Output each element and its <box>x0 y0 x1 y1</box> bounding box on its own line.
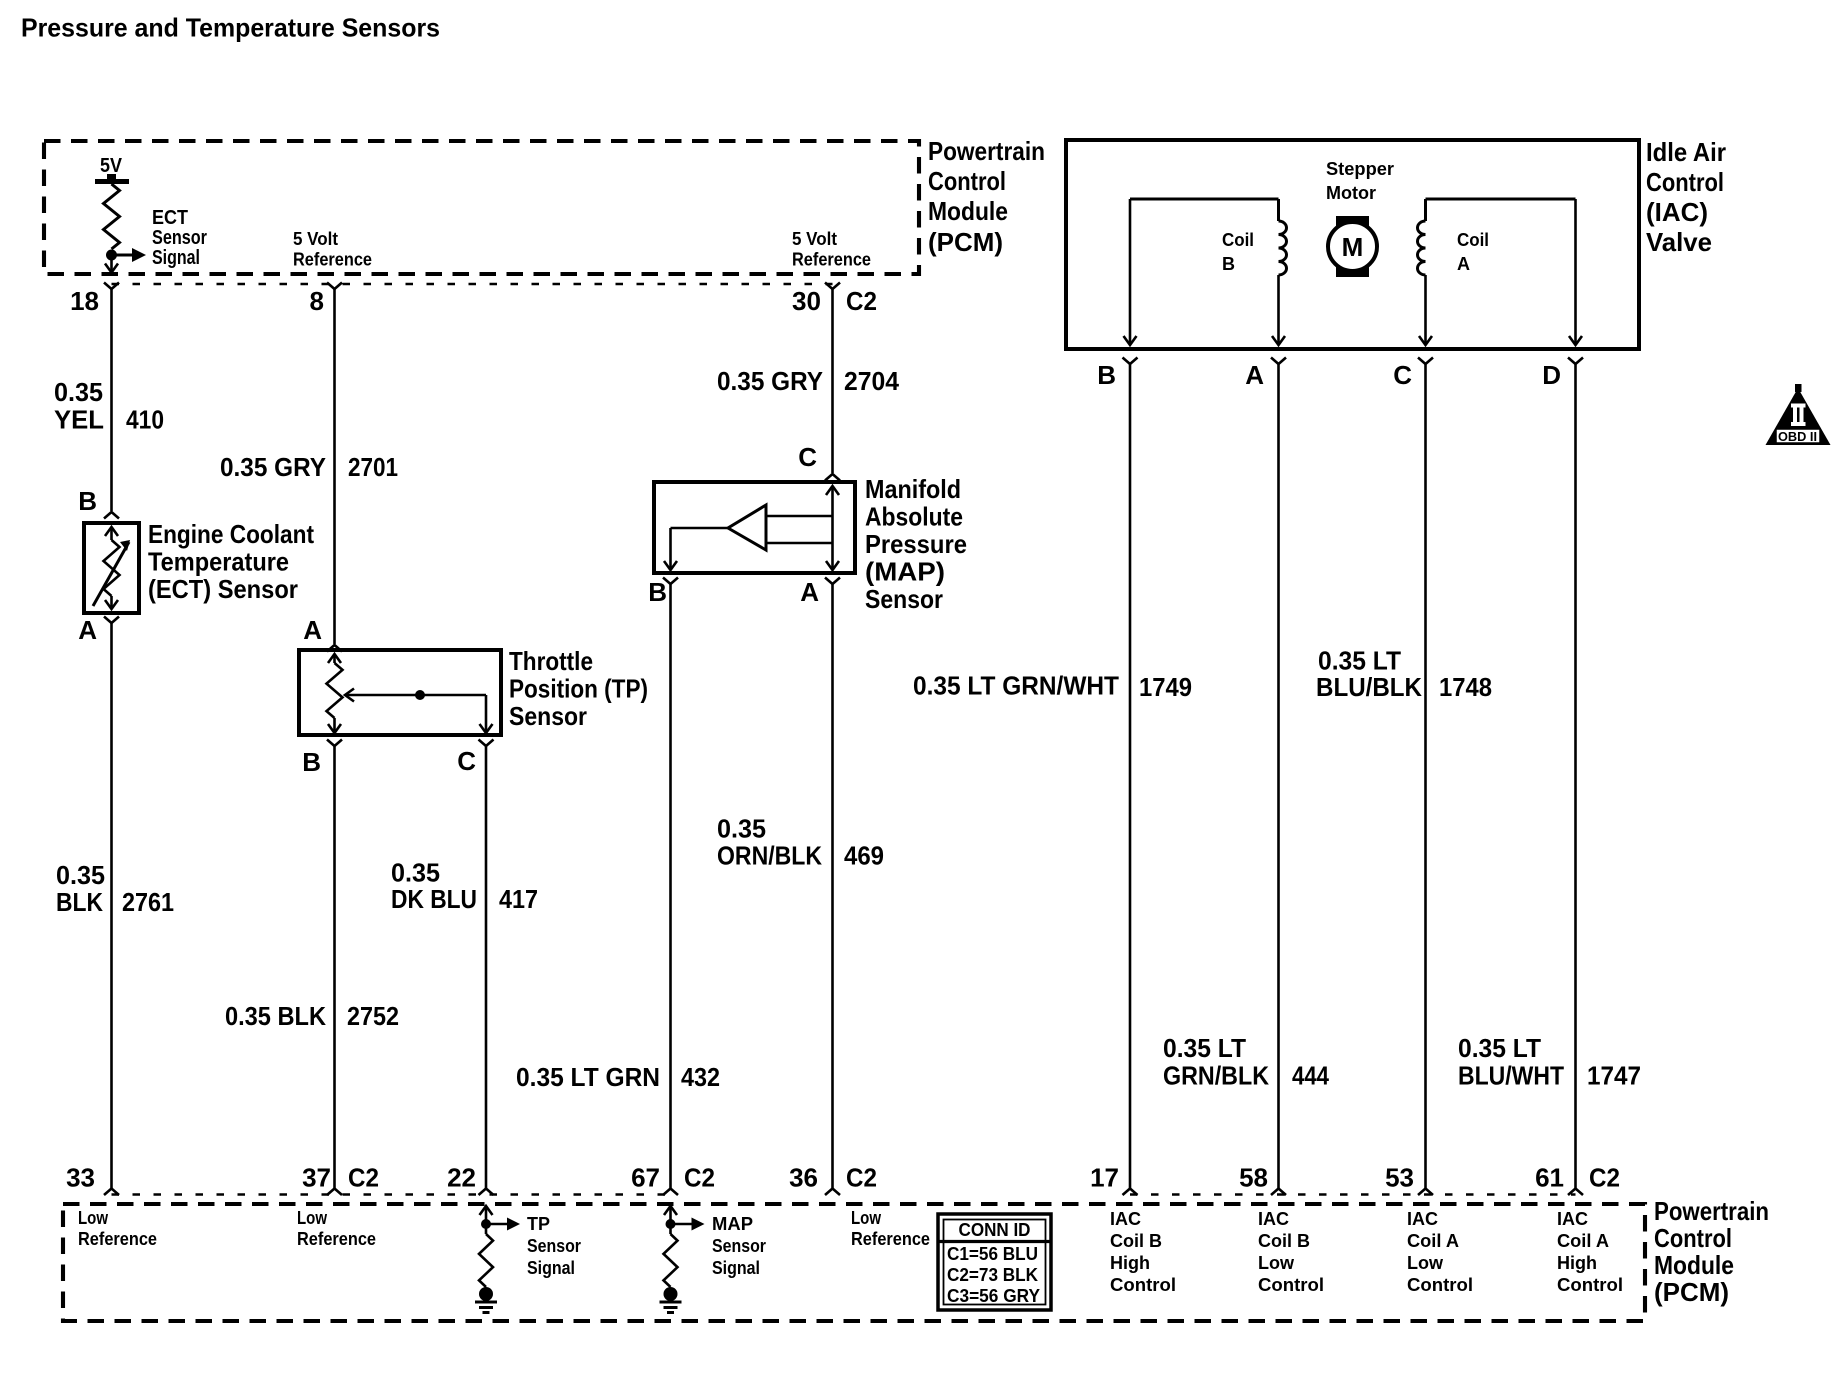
svg-text:1747: 1747 <box>1587 1061 1641 1091</box>
connector chevron MAP pin A <box>825 578 840 585</box>
connector chevron pin 67 <box>663 1189 678 1196</box>
PCM top module box (dashed) <box>44 141 919 274</box>
svg-text:Powertrain: Powertrain <box>928 136 1045 166</box>
CONN ID table box <box>938 1214 1051 1310</box>
svg-text:0.35 BLK: 0.35 BLK <box>225 1001 326 1031</box>
svg-text:C1=56 BLU: C1=56 BLU <box>947 1244 1038 1264</box>
svg-text:30: 30 <box>792 286 821 316</box>
connector chevron pin 37 <box>327 1189 342 1196</box>
PCM bottom module box (dashed) <box>63 1204 1645 1321</box>
svg-text:IAC: IAC <box>1110 1209 1141 1229</box>
wire 2704 GRY pin 30 to MAP C <box>831 289 834 473</box>
5V supply bar <box>95 179 129 184</box>
svg-text:432: 432 <box>681 1062 720 1092</box>
svg-text:469: 469 <box>844 841 884 871</box>
svg-text:M: M <box>1342 232 1364 262</box>
svg-text:C2: C2 <box>1589 1163 1620 1193</box>
svg-text:B: B <box>302 747 321 777</box>
MAP sensor box <box>654 482 855 573</box>
svg-text:C2: C2 <box>846 286 877 316</box>
svg-text:(IAC): (IAC) <box>1646 197 1708 227</box>
svg-text:Manifold: Manifold <box>865 474 961 504</box>
svg-text:2704: 2704 <box>844 366 900 396</box>
svg-text:Reference: Reference <box>792 250 871 270</box>
svg-text:0.35 LT GRN/WHT: 0.35 LT GRN/WHT <box>913 671 1119 701</box>
wire 444 LT GRN/BLK IAC A to pin 58 <box>1277 364 1280 1188</box>
svg-text:Sensor: Sensor <box>152 227 207 249</box>
wire 2701 GRY pin 8 to TP A <box>333 289 336 644</box>
svg-text:Reference: Reference <box>293 250 372 270</box>
svg-text:1749: 1749 <box>1139 672 1192 702</box>
svg-text:C2: C2 <box>846 1163 877 1193</box>
svg-text:417: 417 <box>499 884 538 914</box>
svg-text:18: 18 <box>70 286 99 316</box>
wire 410 YEL pin18 to ECT B <box>110 289 113 511</box>
connector chevron IAC A <box>1271 358 1286 365</box>
svg-text:Control: Control <box>928 166 1006 196</box>
connector C1 face line (top) <box>112 283 833 286</box>
svg-text:(MAP): (MAP) <box>865 557 945 587</box>
TP sensor signal input (inside PCM) <box>485 1206 488 1234</box>
svg-text:C2: C2 <box>684 1163 715 1193</box>
svg-text:Sensor: Sensor <box>509 701 587 731</box>
svg-text:Coil: Coil <box>1222 230 1254 250</box>
svg-text:Reference: Reference <box>297 1229 376 1249</box>
connector chevron TP pin B <box>327 740 342 747</box>
svg-text:C: C <box>457 746 476 776</box>
coil A winding loop wire <box>1426 198 1576 201</box>
op-amp output wire to MAP B <box>671 527 729 530</box>
connector chevron pin 8 <box>327 283 342 290</box>
svg-text:YEL: YEL <box>54 405 104 435</box>
connector chevron MAP pin C <box>825 474 840 481</box>
svg-text:Module: Module <box>1654 1250 1734 1280</box>
svg-text:Control: Control <box>1557 1275 1623 1295</box>
svg-text:Idle Air: Idle Air <box>1646 137 1726 167</box>
svg-text:Low: Low <box>78 1208 109 1228</box>
svg-text:Stepper: Stepper <box>1326 159 1394 179</box>
svg-text:0.35 LT: 0.35 LT <box>1458 1033 1541 1063</box>
svg-text:Coil: Coil <box>1457 230 1489 250</box>
svg-text:0.35: 0.35 <box>54 377 103 407</box>
svg-text:Low: Low <box>297 1208 328 1228</box>
svg-text:0.35 GRY: 0.35 GRY <box>220 452 326 482</box>
thermistor ECT internal <box>105 527 118 536</box>
resistor R-pullup ECT (inside PCM) <box>104 184 120 249</box>
svg-text:ECT: ECT <box>152 207 188 229</box>
svg-text:Throttle: Throttle <box>509 646 593 676</box>
MAP sensor signal input (inside PCM) <box>669 1206 672 1234</box>
svg-text:2761: 2761 <box>122 887 174 917</box>
svg-text:61: 61 <box>1535 1163 1564 1193</box>
svg-text:Reference: Reference <box>78 1229 157 1249</box>
svg-text:58: 58 <box>1239 1163 1268 1193</box>
wire 432 LT GRN MAP B to pin 67 <box>669 584 672 1188</box>
svg-text:CONN ID: CONN ID <box>959 1220 1031 1240</box>
op-amp input wires <box>766 515 833 518</box>
connector chevron IAC D <box>1568 358 1583 365</box>
connector chevron pin 61 <box>1568 1189 1583 1196</box>
svg-text:High: High <box>1110 1253 1150 1273</box>
svg-text:C: C <box>1393 360 1412 390</box>
svg-text:(PCM): (PCM) <box>928 227 1003 257</box>
svg-text:67: 67 <box>631 1163 660 1193</box>
svg-text:22: 22 <box>447 1163 476 1193</box>
stepper motor M symbol <box>1336 216 1369 277</box>
svg-text:C2=73 BLK: C2=73 BLK <box>947 1265 1038 1285</box>
svg-text:0.35: 0.35 <box>56 860 105 890</box>
svg-text:Control: Control <box>1646 167 1724 197</box>
svg-text:A: A <box>800 577 819 607</box>
svg-text:8: 8 <box>310 286 324 316</box>
svg-text:Pressure and Temperature Senso: Pressure and Temperature Sensors <box>21 13 440 43</box>
TP wiper arm <box>345 689 354 702</box>
svg-text:A: A <box>1457 254 1470 274</box>
svg-text:OBD II: OBD II <box>1778 430 1817 444</box>
potentiometer TP internal <box>328 654 341 663</box>
svg-text:1748: 1748 <box>1439 672 1492 702</box>
svg-text:Control: Control <box>1407 1275 1473 1295</box>
connector chevron ECT pin B <box>104 512 119 519</box>
svg-text:0.35: 0.35 <box>391 858 440 888</box>
connector C1/C2 face line (bottom left) <box>112 1193 671 1196</box>
svg-text:Signal: Signal <box>152 247 200 269</box>
svg-text:B: B <box>648 577 667 607</box>
svg-text:Coil B: Coil B <box>1258 1231 1310 1251</box>
svg-text:Temperature: Temperature <box>148 547 289 577</box>
wire 1747 LT BLU/WHT IAC D to pin 61 <box>1574 364 1577 1188</box>
svg-text:5 Volt: 5 Volt <box>293 229 338 249</box>
svg-text:BLU/WHT: BLU/WHT <box>1458 1061 1564 1091</box>
connector chevron pin 22 <box>479 1189 494 1196</box>
IAC valve box <box>1066 140 1639 349</box>
svg-text:Sensor: Sensor <box>712 1236 766 1256</box>
svg-text:Control: Control <box>1258 1275 1324 1295</box>
svg-text:Coil A: Coil A <box>1407 1231 1459 1251</box>
svg-text:DK BLU: DK BLU <box>391 884 477 914</box>
svg-text:Position (TP): Position (TP) <box>509 674 648 704</box>
resistor MAP signal pulldown <box>664 1234 678 1287</box>
svg-text:Signal: Signal <box>527 1258 575 1278</box>
svg-text:ORN/BLK: ORN/BLK <box>717 841 822 871</box>
connector chevron pin 30 <box>825 283 840 290</box>
svg-text:(PCM): (PCM) <box>1654 1277 1729 1307</box>
connector chevron pin 58 <box>1271 1189 1286 1196</box>
op-amp triangle MAP <box>728 505 766 550</box>
node ECT signal junction dot <box>106 250 117 261</box>
svg-text:5V: 5V <box>100 155 123 177</box>
connector chevron pin 17 <box>1123 1189 1138 1196</box>
svg-text:0.35 LT GRN: 0.35 LT GRN <box>516 1062 660 1092</box>
svg-text:Sensor: Sensor <box>527 1236 581 1256</box>
svg-text:Powertrain: Powertrain <box>1654 1196 1769 1226</box>
connector chevron pin 33 <box>104 1189 119 1196</box>
svg-text:TP: TP <box>527 1214 550 1234</box>
connector chevron MAP pin B <box>663 578 678 585</box>
svg-text:Module: Module <box>928 196 1008 226</box>
OBD II symbol triangle <box>1766 388 1831 445</box>
svg-text:Motor: Motor <box>1326 183 1376 203</box>
svg-text:36: 36 <box>789 1163 818 1193</box>
svg-text:Low: Low <box>851 1208 882 1228</box>
svg-text:37: 37 <box>302 1163 331 1193</box>
svg-text:Sensor: Sensor <box>865 584 943 614</box>
svg-text:BLU/BLK: BLU/BLK <box>1316 672 1422 702</box>
svg-text:MAP: MAP <box>712 1214 753 1234</box>
svg-text:D: D <box>1542 360 1561 390</box>
connector chevron TP pin C <box>479 740 494 747</box>
svg-text:Engine Coolant: Engine Coolant <box>148 519 314 549</box>
svg-text:C3=56 GRY: C3=56 GRY <box>947 1286 1040 1306</box>
connector chevron pin 53 <box>1418 1189 1433 1196</box>
svg-text:0.35 LT: 0.35 LT <box>1163 1033 1246 1063</box>
connector chevron IAC B <box>1123 358 1138 365</box>
svg-text:Coil A: Coil A <box>1557 1231 1609 1251</box>
svg-text:0.35: 0.35 <box>717 814 766 844</box>
svg-text:A: A <box>1245 360 1264 390</box>
TP sensor box <box>299 650 501 735</box>
wire 2752 BLK TP B to pin 37 <box>333 746 336 1188</box>
MAP internal 5V line <box>826 486 839 495</box>
svg-text:C: C <box>798 442 817 472</box>
svg-text:BLK: BLK <box>56 887 103 917</box>
svg-text:33: 33 <box>66 1163 95 1193</box>
svg-text:2701: 2701 <box>348 452 398 482</box>
wire ECT signal to pin 18 <box>110 255 113 272</box>
svg-text:Control: Control <box>1110 1275 1176 1295</box>
svg-text:410: 410 <box>126 405 164 435</box>
svg-text:Low: Low <box>1258 1253 1295 1273</box>
svg-text:Low: Low <box>1407 1253 1444 1273</box>
svg-text:IAC: IAC <box>1557 1209 1588 1229</box>
svg-text:444: 444 <box>1292 1061 1329 1091</box>
svg-text:IAC: IAC <box>1407 1209 1438 1229</box>
svg-text:GRN/BLK: GRN/BLK <box>1163 1061 1269 1091</box>
svg-text:Valve: Valve <box>1646 227 1712 257</box>
resistor TP signal pulldown <box>479 1234 493 1287</box>
svg-text:C2: C2 <box>348 1163 379 1193</box>
connector chevron pin 36 <box>825 1189 840 1196</box>
ground TP signal <box>479 1287 493 1301</box>
wire 1748 LT BLU/BLK IAC C to pin 53 <box>1424 364 1427 1188</box>
connector chevron ECT pin A <box>104 617 119 624</box>
svg-text:A: A <box>78 615 97 645</box>
coil B winding loop wire <box>1130 198 1279 201</box>
svg-text:High: High <box>1557 1253 1597 1273</box>
wire 469 ORN/BLK MAP A to pin 36 <box>831 584 834 1188</box>
inductor coil A <box>1418 221 1426 275</box>
svg-text:Absolute: Absolute <box>865 502 963 532</box>
svg-text:0.35 GRY: 0.35 GRY <box>717 366 823 396</box>
connector chevron TP pin A <box>327 645 342 652</box>
connector chevron IAC C <box>1418 358 1433 365</box>
svg-text:(ECT) Sensor: (ECT) Sensor <box>148 574 298 604</box>
wire 417 DK BLU TP C to pin 22 <box>485 746 488 1188</box>
svg-text:Coil B: Coil B <box>1110 1231 1162 1251</box>
ground MAP signal <box>664 1287 678 1301</box>
svg-text:B: B <box>78 486 97 516</box>
connector chevron pin 18 <box>104 283 119 290</box>
svg-text:2752: 2752 <box>347 1001 399 1031</box>
svg-text:Signal: Signal <box>712 1258 760 1278</box>
svg-text:53: 53 <box>1385 1163 1414 1193</box>
svg-text:17: 17 <box>1090 1163 1119 1193</box>
inductor coil B <box>1279 221 1287 275</box>
svg-text:0.35 LT: 0.35 LT <box>1318 646 1401 676</box>
svg-text:Control: Control <box>1654 1223 1732 1253</box>
connector C2 face line (bottom right) <box>1130 1193 1576 1196</box>
svg-text:Reference: Reference <box>851 1229 930 1249</box>
svg-text:B: B <box>1097 360 1116 390</box>
svg-text:Pressure: Pressure <box>865 529 967 559</box>
wire 1749 LT GRN/WHT IAC B to pin 17 <box>1129 364 1132 1188</box>
svg-text:5 Volt: 5 Volt <box>792 229 837 249</box>
svg-text:A: A <box>303 615 322 645</box>
ECT sensor box <box>84 523 139 613</box>
svg-text:IAC: IAC <box>1258 1209 1289 1229</box>
ECT sensor signal arrow <box>112 254 134 257</box>
svg-text:B: B <box>1222 254 1235 274</box>
wire 2761 BLK ECT A to pin 33 <box>110 623 113 1188</box>
